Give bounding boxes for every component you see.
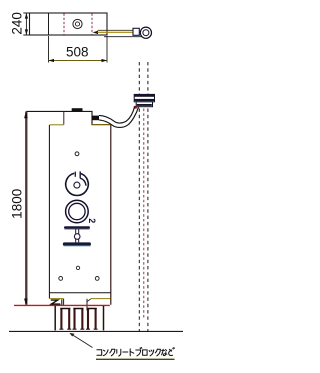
front view: small vent hole [75,152,79,156]
label text: コンクリートブロックなど (drawn as paths) [97,347,175,356]
top view: oil supply hose (double line) [98,29,134,31]
dimension 508: dimension line with arrows [49,60,108,62]
top view: oil hose arrow pointing at connection point [93,31,98,34]
emblem: large O ring [66,200,89,223]
top view: bracket line under hose [104,36,142,38]
front view: top panel seam [63,112,65,125]
top view: hose end ring terminal [140,27,151,38]
front view: hose connection stub [92,116,99,121]
hose from unit to wall fitting (upper outline) [99,107,135,123]
front view: top lip right (olive) [92,124,111,126]
concrete block: outline sides [54,306,56,331]
wall pipe: red dashed center line [143,109,145,320]
front view: bottom bolt left [59,277,63,281]
wall pipe: dashed lines above fitting [138,62,140,94]
svg-text:508: 508 [66,45,89,60]
front view: right leg diagonal brace [87,299,91,302]
label leader line with arrow [71,334,93,348]
base: red mounting line [14,304,110,306]
hose from unit to wall fitting (lower outline) [99,107,139,128]
concrete block: slot 2 [73,309,75,329]
emblem: burner dial (G-like ring with gap) [66,173,89,195]
front view: top cap (flue) [72,108,83,111]
top view: hidden pipe line (red dashed, left) [63,14,65,35]
dimension 240: vertical dimension line with arrows [25,13,27,35]
front view: left leg inner edge [63,299,65,305]
wall pipe: coupling fitting [134,94,154,101]
top view: hidden pipe line (red dashed, right) [91,14,93,35]
svg-text:1800: 1800 [9,189,24,219]
front view: top lip left (olive) [49,124,63,126]
concrete block: slot 1 [60,309,62,329]
svg-text:240: 240 [9,12,24,35]
label underline [96,358,175,360]
emblem: I-beam pipe fitting top bar [64,226,90,229]
front view: drain valve zigzag [51,300,61,304]
front view: panel bottom edge [49,292,110,294]
front view: bottom bolt right [95,277,99,281]
front view: right leg inner edge [86,299,88,311]
front view: bottom lip right (olive) [91,298,111,300]
emblem: I-beam bottom bar [63,242,91,245]
top view: internal divider seam [48,13,50,35]
wall pipe: dashed lines below fitting [138,109,140,332]
front view: center bolt circle [76,266,79,269]
dimension 1800: dimension line with arrows [25,112,27,305]
svg-text:2: 2 [87,218,97,223]
front view: front panel left edge [48,125,50,299]
front view: bottom lip left (olive) [49,298,63,300]
top view: heater body outline (plan) [30,13,108,35]
front view: outer casing outline [27,111,111,304]
emblem: I-beam stem [75,229,77,242]
emblem: stem circle [74,234,80,240]
dimension 508: extension lines [48,36,50,63]
concrete block: slot 3 [87,309,89,329]
ground line [9,330,183,332]
top view: hose end fitting block [133,28,139,35]
top view: flue collar double circle [73,19,82,28]
dimension 240: extension ticks [23,12,29,14]
